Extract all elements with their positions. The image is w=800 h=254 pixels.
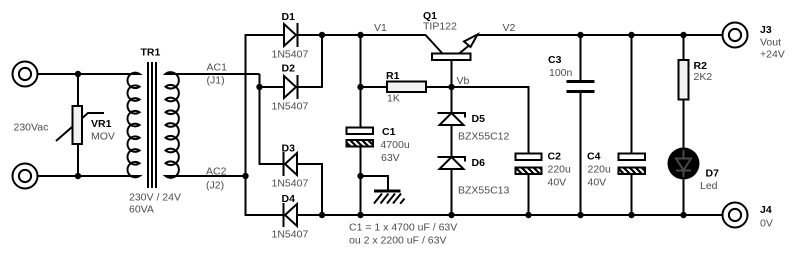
svg-text:0V: 0V xyxy=(760,218,773,230)
svg-text:R1: R1 xyxy=(386,70,400,82)
svg-text:TIP122: TIP122 xyxy=(423,21,457,33)
svg-text:1K: 1K xyxy=(387,93,400,105)
svg-text:BZX55C13: BZX55C13 xyxy=(458,185,510,197)
svg-text:220u: 220u xyxy=(548,164,572,176)
svg-text:C1: C1 xyxy=(382,126,396,138)
svg-text:D6: D6 xyxy=(472,157,486,169)
svg-text:D3: D3 xyxy=(282,143,296,155)
svg-text:2K2: 2K2 xyxy=(694,71,713,83)
svg-text:230V / 24V: 230V / 24V xyxy=(129,192,181,204)
svg-text:V2: V2 xyxy=(503,22,516,34)
svg-text:220u: 220u xyxy=(588,164,612,176)
svg-text:MOV: MOV xyxy=(91,131,115,143)
svg-text:4700u: 4700u xyxy=(381,139,410,151)
svg-text:1N5407: 1N5407 xyxy=(272,101,309,113)
svg-text:40V: 40V xyxy=(548,177,567,189)
svg-text:100n: 100n xyxy=(549,67,573,79)
svg-text:D2: D2 xyxy=(282,63,296,75)
svg-text:BZX55C12: BZX55C12 xyxy=(458,131,510,143)
svg-text:+24V: +24V xyxy=(760,49,785,61)
svg-text:40V: 40V xyxy=(588,177,607,189)
svg-text:TR1: TR1 xyxy=(141,47,161,59)
svg-text:C2: C2 xyxy=(548,151,562,163)
svg-text:ou 2 x 2200 uF / 63V: ou 2 x 2200 uF / 63V xyxy=(349,235,446,247)
svg-text:AC2: AC2 xyxy=(206,166,227,178)
svg-text:D1: D1 xyxy=(282,11,296,23)
svg-text:J3: J3 xyxy=(760,24,772,36)
svg-text:1N5407: 1N5407 xyxy=(272,178,309,190)
svg-text:C1 = 1 x 4700 uF / 63V: C1 = 1 x 4700 uF / 63V xyxy=(349,222,457,234)
svg-text:1N5407: 1N5407 xyxy=(272,49,309,61)
svg-text:Vout: Vout xyxy=(760,37,781,49)
svg-text:Led: Led xyxy=(700,180,718,192)
svg-text:AC1: AC1 xyxy=(207,62,228,74)
svg-text:D5: D5 xyxy=(472,113,486,125)
svg-text:V1: V1 xyxy=(374,22,387,34)
svg-text:230Vac: 230Vac xyxy=(14,122,49,134)
svg-text:60VA: 60VA xyxy=(129,204,154,216)
svg-text:VR1: VR1 xyxy=(91,118,112,130)
svg-text:1N5407: 1N5407 xyxy=(272,229,309,241)
svg-text:(J1): (J1) xyxy=(207,75,225,87)
svg-text:C3: C3 xyxy=(548,54,562,66)
svg-text:63V: 63V xyxy=(381,152,400,164)
svg-text:Vb: Vb xyxy=(457,75,470,87)
svg-text:J4: J4 xyxy=(760,204,772,216)
svg-text:C4: C4 xyxy=(587,151,601,163)
svg-text:D4: D4 xyxy=(282,193,296,205)
svg-text:D7: D7 xyxy=(706,168,720,180)
svg-text:(J2): (J2) xyxy=(206,180,224,192)
